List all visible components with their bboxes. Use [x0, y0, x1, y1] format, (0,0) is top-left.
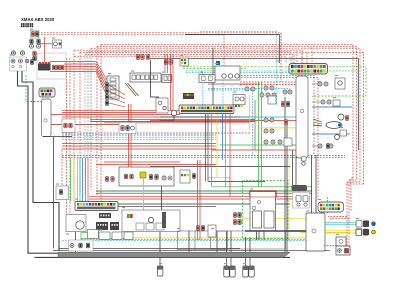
svg-text:XMAX ABS 2020: XMAX ABS 2020 — [21, 17, 55, 22]
